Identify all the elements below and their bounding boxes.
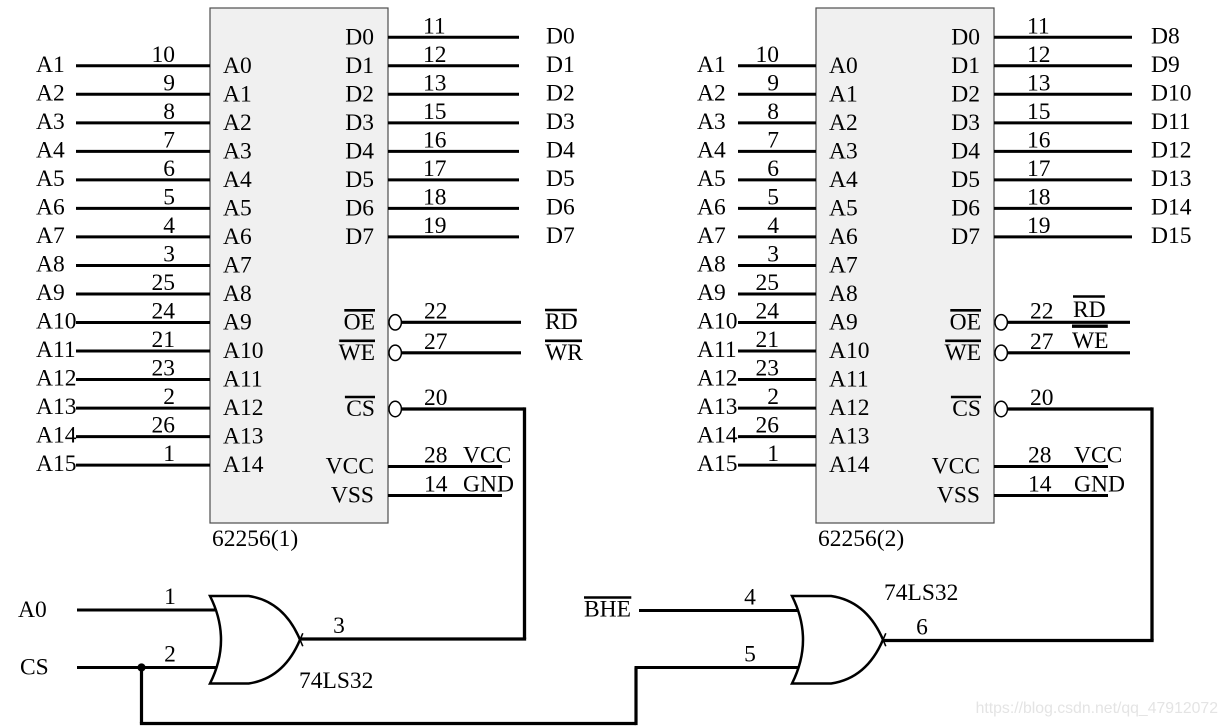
svg-text:A5: A5 (697, 166, 726, 192)
svg-text:A0: A0 (829, 53, 858, 79)
svg-text:A0: A0 (223, 53, 252, 79)
svg-text:14: 14 (424, 472, 448, 498)
svg-text:A6: A6 (223, 224, 252, 250)
wire A9 to U2 pin 25 (738, 293, 816, 296)
svg-text:D15: D15 (1151, 223, 1191, 249)
wire U2 pin 15 to D11 (994, 121, 1132, 124)
svg-text:D10: D10 (1151, 80, 1191, 106)
wire U2 CS down to gate G2 output (1150, 407, 1153, 640)
svg-text:4: 4 (767, 213, 779, 239)
svg-text:D1: D1 (345, 53, 374, 79)
svg-text:3: 3 (767, 242, 779, 268)
wire BHE to G2 pin 4 (639, 609, 800, 612)
wire CS net up to G2 pin 5 (634, 668, 637, 726)
svg-text:9: 9 (767, 70, 779, 96)
wire CS to G1 pin 2 (77, 666, 222, 669)
svg-text:7: 7 (767, 127, 779, 153)
wire U1 pin 27 (WE) to WR (401, 351, 521, 354)
svg-text:A3: A3 (697, 109, 726, 135)
svg-text:2: 2 (163, 384, 175, 410)
wire CS net bottom run (140, 722, 636, 725)
svg-text:VCC: VCC (326, 454, 374, 480)
svg-text:D6: D6 (345, 195, 374, 221)
svg-text:19: 19 (1027, 213, 1051, 239)
svg-text:8: 8 (163, 99, 175, 125)
svg-text:D2: D2 (546, 80, 575, 106)
svg-text:3: 3 (163, 242, 175, 268)
wire G1 pin 3 output to U1 CS (300, 637, 526, 640)
svg-text:D4: D4 (951, 138, 980, 164)
wire A8 to U2 pin 3 (738, 264, 816, 267)
svg-text:D6: D6 (546, 194, 575, 220)
wire U1 pin 11 to D0 (388, 36, 519, 39)
svg-text:A7: A7 (697, 223, 726, 249)
wire U1 pin 20 (CS) horizontal (401, 407, 524, 410)
svg-text:5: 5 (767, 184, 779, 210)
svg-text:26: 26 (152, 413, 176, 439)
svg-text:WE: WE (1072, 328, 1109, 354)
svg-text:11: 11 (1027, 13, 1050, 39)
svg-text:D9: D9 (1151, 52, 1180, 78)
svg-text:A2: A2 (697, 80, 726, 106)
svg-text:A5: A5 (829, 195, 858, 221)
svg-text:20: 20 (1030, 385, 1054, 411)
svg-text:13: 13 (1027, 70, 1051, 96)
U1 WE bubble (389, 345, 401, 360)
svg-text:A1: A1 (829, 81, 858, 107)
svg-text:19: 19 (423, 213, 447, 239)
svg-text:16: 16 (423, 127, 447, 153)
svg-text:6: 6 (163, 156, 175, 182)
svg-text:A14: A14 (36, 423, 77, 449)
svg-text:CS: CS (952, 396, 981, 422)
svg-text:A9: A9 (697, 280, 726, 306)
svg-text:A2: A2 (829, 110, 858, 136)
svg-text:D5: D5 (546, 166, 575, 192)
wire U1 CS down to gate G1 output (523, 407, 526, 639)
svg-text:D1: D1 (951, 53, 980, 79)
svg-text:D0: D0 (546, 23, 575, 49)
svg-text:1: 1 (767, 441, 779, 467)
wire U2 pin 16 to D12 (994, 150, 1132, 153)
chip U1 62256(1) (210, 8, 388, 523)
svg-text:25: 25 (756, 270, 780, 296)
svg-text:A9: A9 (223, 310, 252, 336)
or-gate G2 74LS32 (792, 596, 883, 684)
svg-text:D7: D7 (951, 224, 980, 250)
wire A5 to U2 pin 6 (738, 178, 816, 181)
wire U1 pin 17 to D5 (388, 178, 519, 181)
wire A4 to U2 pin 7 (738, 150, 816, 153)
svg-text:RD: RD (1073, 297, 1106, 323)
svg-text:24: 24 (756, 299, 780, 325)
svg-text:A7: A7 (223, 253, 252, 279)
wire U2 pin 18 to D14 (994, 207, 1132, 210)
wire A3 to U1 pin 8 (76, 121, 210, 124)
svg-text:GND: GND (1074, 472, 1125, 498)
wire U1 pin 28 VCC (388, 465, 502, 468)
svg-text:11: 11 (423, 13, 446, 39)
or-gate G1 74LS32 (210, 596, 300, 684)
svg-text:D12: D12 (1151, 137, 1191, 163)
svg-text:A4: A4 (697, 137, 726, 163)
svg-text:27: 27 (1030, 329, 1054, 355)
svg-text:A9: A9 (829, 310, 858, 336)
svg-text:D2: D2 (951, 81, 980, 107)
svg-text:21: 21 (152, 327, 176, 353)
svg-text:15: 15 (1027, 99, 1051, 125)
svg-text:23: 23 (756, 356, 780, 382)
svg-text:9: 9 (163, 70, 175, 96)
wire U2 pin 28 VCC (994, 465, 1108, 468)
svg-text:D11: D11 (1151, 109, 1191, 135)
svg-text:A9: A9 (36, 280, 65, 306)
U2 OE bubble (995, 315, 1007, 330)
wire U1 pin 14 VSS (388, 494, 502, 497)
svg-text:BHE: BHE (584, 597, 631, 623)
svg-text:D6: D6 (951, 195, 980, 221)
svg-text:18: 18 (423, 184, 447, 210)
svg-text:OE: OE (344, 309, 375, 335)
svg-text:A12: A12 (697, 366, 737, 392)
svg-text:A14: A14 (223, 452, 264, 478)
wire A13 to U1 pin 2 (76, 407, 210, 410)
svg-text:A10: A10 (36, 309, 76, 335)
svg-text:24: 24 (152, 299, 176, 325)
svg-text:A2: A2 (223, 110, 252, 136)
svg-text:A10: A10 (223, 338, 263, 364)
svg-text:D13: D13 (1151, 166, 1191, 192)
svg-text:10: 10 (756, 42, 780, 68)
wire A12 to U2 pin 23 (738, 378, 816, 381)
wire A10 to U2 pin 24 (738, 321, 816, 324)
svg-text:GND: GND (463, 472, 514, 498)
wire A12 to U1 pin 23 (76, 378, 210, 381)
wire A1 to U2 pin 10 (738, 64, 816, 67)
wire A4 to U1 pin 7 (76, 150, 210, 153)
svg-text:22: 22 (1030, 298, 1054, 324)
svg-text:62256(2): 62256(2) (818, 526, 904, 552)
wire U1 pin 16 to D4 (388, 150, 519, 153)
svg-text:A13: A13 (36, 394, 76, 420)
svg-text:A8: A8 (829, 281, 858, 307)
svg-text:5: 5 (163, 184, 175, 210)
svg-text:7: 7 (163, 127, 175, 153)
svg-text:https://blog.csdn.net/qq_47912: https://blog.csdn.net/qq_47912072 (976, 700, 1218, 717)
wire A1 to U1 pin 10 (76, 64, 210, 67)
wire A2 to U1 pin 9 (76, 93, 210, 96)
svg-text:WE: WE (944, 340, 981, 366)
svg-text:D3: D3 (345, 110, 374, 136)
svg-text:D8: D8 (1151, 23, 1180, 49)
svg-text:17: 17 (1027, 156, 1051, 182)
svg-text:CS: CS (20, 655, 49, 681)
svg-text:A11: A11 (829, 367, 869, 393)
wire A8 to U1 pin 3 (76, 264, 210, 267)
svg-text:A11: A11 (36, 337, 76, 363)
chip U2 62256(2) (816, 8, 994, 523)
wire A9 to U1 pin 25 (76, 293, 210, 296)
wire U2 pin 20 (CS) horizontal (1007, 407, 1152, 410)
wire A15 to U2 pin 1 (738, 464, 816, 467)
wire U1 pin 13 to D2 (388, 93, 519, 96)
svg-text:A11: A11 (697, 337, 737, 363)
svg-text:A10: A10 (829, 338, 869, 364)
svg-text:A13: A13 (223, 424, 263, 450)
svg-text:10: 10 (152, 42, 176, 68)
svg-text:A12: A12 (829, 395, 869, 421)
wire A10 to U1 pin 24 (76, 321, 210, 324)
svg-text:A3: A3 (223, 138, 252, 164)
wire A14 to U1 pin 26 (76, 435, 210, 438)
svg-text:62256(1): 62256(1) (212, 526, 298, 552)
svg-text:6: 6 (916, 615, 928, 641)
svg-text:A3: A3 (36, 109, 65, 135)
svg-text:27: 27 (424, 329, 448, 355)
svg-text:15: 15 (423, 99, 447, 125)
wire CS net to G2 pin 5 (635, 666, 801, 669)
svg-text:A1: A1 (223, 81, 252, 107)
svg-text:3: 3 (333, 613, 345, 639)
svg-text:A2: A2 (36, 80, 65, 106)
svg-text:D4: D4 (546, 137, 575, 163)
U2 WE bubble (995, 345, 1007, 360)
wire U2 pin 14 VSS (994, 494, 1108, 497)
wire U1 pin 22 (OE) to RD (401, 321, 521, 324)
svg-text:A4: A4 (223, 167, 252, 193)
svg-text:VCC: VCC (932, 454, 980, 480)
svg-text:A6: A6 (829, 224, 858, 250)
svg-text:16: 16 (1027, 127, 1051, 153)
svg-text:17: 17 (423, 156, 447, 182)
svg-text:WE: WE (338, 340, 375, 366)
wire A0 to G1 pin 1 (77, 609, 222, 612)
svg-text:VCC: VCC (1074, 443, 1122, 469)
svg-text:D3: D3 (546, 109, 575, 135)
svg-text:28: 28 (424, 443, 448, 469)
svg-text:D5: D5 (951, 167, 980, 193)
wire A13 to U2 pin 2 (738, 407, 816, 410)
svg-text:A4: A4 (36, 137, 65, 163)
svg-text:A10: A10 (697, 309, 737, 335)
svg-text:26: 26 (756, 413, 780, 439)
wire U2 pin 19 to D15 (994, 235, 1132, 238)
wire A11 to U2 pin 21 (738, 350, 816, 353)
svg-text:A13: A13 (829, 424, 869, 450)
svg-text:13: 13 (423, 70, 447, 96)
svg-text:A8: A8 (223, 281, 252, 307)
svg-text:12: 12 (423, 42, 447, 68)
svg-text:14: 14 (1028, 472, 1052, 498)
wire A2 to U2 pin 9 (738, 93, 816, 96)
svg-text:A8: A8 (697, 252, 726, 278)
wire A11 to U1 pin 21 (76, 350, 210, 353)
svg-text:8: 8 (767, 99, 779, 125)
svg-text:A15: A15 (697, 451, 737, 477)
svg-text:D4: D4 (345, 138, 374, 164)
svg-text:D3: D3 (951, 110, 980, 136)
svg-text:A7: A7 (829, 253, 858, 279)
wire A5 to U1 pin 6 (76, 178, 210, 181)
svg-text:D2: D2 (345, 81, 374, 107)
svg-text:12: 12 (1027, 42, 1051, 68)
svg-text:A14: A14 (697, 423, 738, 449)
svg-text:WR: WR (545, 340, 583, 366)
svg-text:D0: D0 (951, 24, 980, 50)
wire CS junction down (140, 668, 143, 724)
svg-text:CS: CS (346, 396, 375, 422)
wire A6 to U1 pin 5 (76, 207, 210, 210)
svg-text:A11: A11 (223, 367, 263, 393)
svg-text:2: 2 (767, 384, 779, 410)
svg-text:A3: A3 (829, 138, 858, 164)
svg-text:20: 20 (424, 385, 448, 411)
svg-text:22: 22 (424, 298, 448, 324)
svg-text:2: 2 (164, 642, 176, 668)
svg-text:A1: A1 (697, 52, 726, 78)
svg-text:28: 28 (1028, 443, 1052, 469)
svg-text:D0: D0 (345, 24, 374, 50)
wire U2 pin 13 to D10 (994, 93, 1132, 96)
svg-text:A14: A14 (829, 452, 870, 478)
svg-text:D14: D14 (1151, 194, 1192, 220)
svg-text:A12: A12 (36, 366, 76, 392)
wire U2 pin 27 (WE) to WR (1007, 351, 1130, 354)
svg-text:A13: A13 (697, 394, 737, 420)
wire A3 to U2 pin 8 (738, 121, 816, 124)
wire U1 pin 18 to D6 (388, 207, 519, 210)
svg-text:4: 4 (163, 213, 175, 239)
svg-text:23: 23 (152, 356, 176, 382)
svg-text:A6: A6 (697, 194, 726, 220)
svg-text:VSS: VSS (937, 483, 980, 509)
svg-text:74LS32: 74LS32 (884, 580, 958, 606)
svg-text:18: 18 (1027, 184, 1051, 210)
wire U2 pin 17 to D13 (994, 178, 1132, 181)
junction dot on CS net (137, 663, 145, 671)
svg-text:4: 4 (744, 585, 756, 611)
svg-text:1: 1 (164, 584, 176, 610)
wire U2 pin 11 to D8 (994, 36, 1132, 39)
U2 CS bubble (995, 401, 1007, 416)
wire A15 to U1 pin 1 (76, 464, 210, 467)
svg-text:5: 5 (744, 642, 756, 668)
wire U1 pin 15 to D3 (388, 121, 519, 124)
wire A6 to U2 pin 5 (738, 207, 816, 210)
svg-text:A0: A0 (18, 597, 47, 623)
svg-text:A7: A7 (36, 223, 65, 249)
svg-text:A1: A1 (36, 52, 65, 78)
svg-text:OE: OE (950, 309, 981, 335)
svg-text:1: 1 (163, 441, 175, 467)
wire U2 pin 22 (OE) to RD (1007, 321, 1130, 324)
svg-text:A6: A6 (36, 194, 65, 220)
svg-text:6: 6 (767, 156, 779, 182)
svg-text:A5: A5 (223, 195, 252, 221)
svg-text:A5: A5 (36, 166, 65, 192)
svg-text:21: 21 (756, 327, 780, 353)
svg-text:A15: A15 (36, 451, 76, 477)
wire A7 to U2 pin 4 (738, 235, 816, 238)
svg-text:D7: D7 (546, 223, 575, 249)
wire U1 pin 19 to D7 (388, 235, 519, 238)
svg-text:D1: D1 (546, 52, 575, 78)
wire U2 pin 12 to D9 (994, 64, 1132, 67)
wire G2 pin 6 output to U2 CS (883, 639, 1154, 642)
wire A7 to U1 pin 4 (76, 235, 210, 238)
svg-text:RD: RD (545, 309, 578, 335)
svg-text:A8: A8 (36, 252, 65, 278)
svg-text:VSS: VSS (331, 483, 374, 509)
svg-text:D5: D5 (345, 167, 374, 193)
wire U1 pin 12 to D1 (388, 64, 519, 67)
svg-text:VCC: VCC (463, 443, 511, 469)
U1 CS bubble (389, 401, 401, 416)
svg-text:D7: D7 (345, 224, 374, 250)
svg-text:A4: A4 (829, 167, 858, 193)
wire A14 to U2 pin 26 (738, 435, 816, 438)
svg-text:74LS32: 74LS32 (299, 668, 373, 694)
U1 OE bubble (389, 315, 401, 330)
svg-text:25: 25 (152, 270, 176, 296)
svg-text:A12: A12 (223, 395, 263, 421)
